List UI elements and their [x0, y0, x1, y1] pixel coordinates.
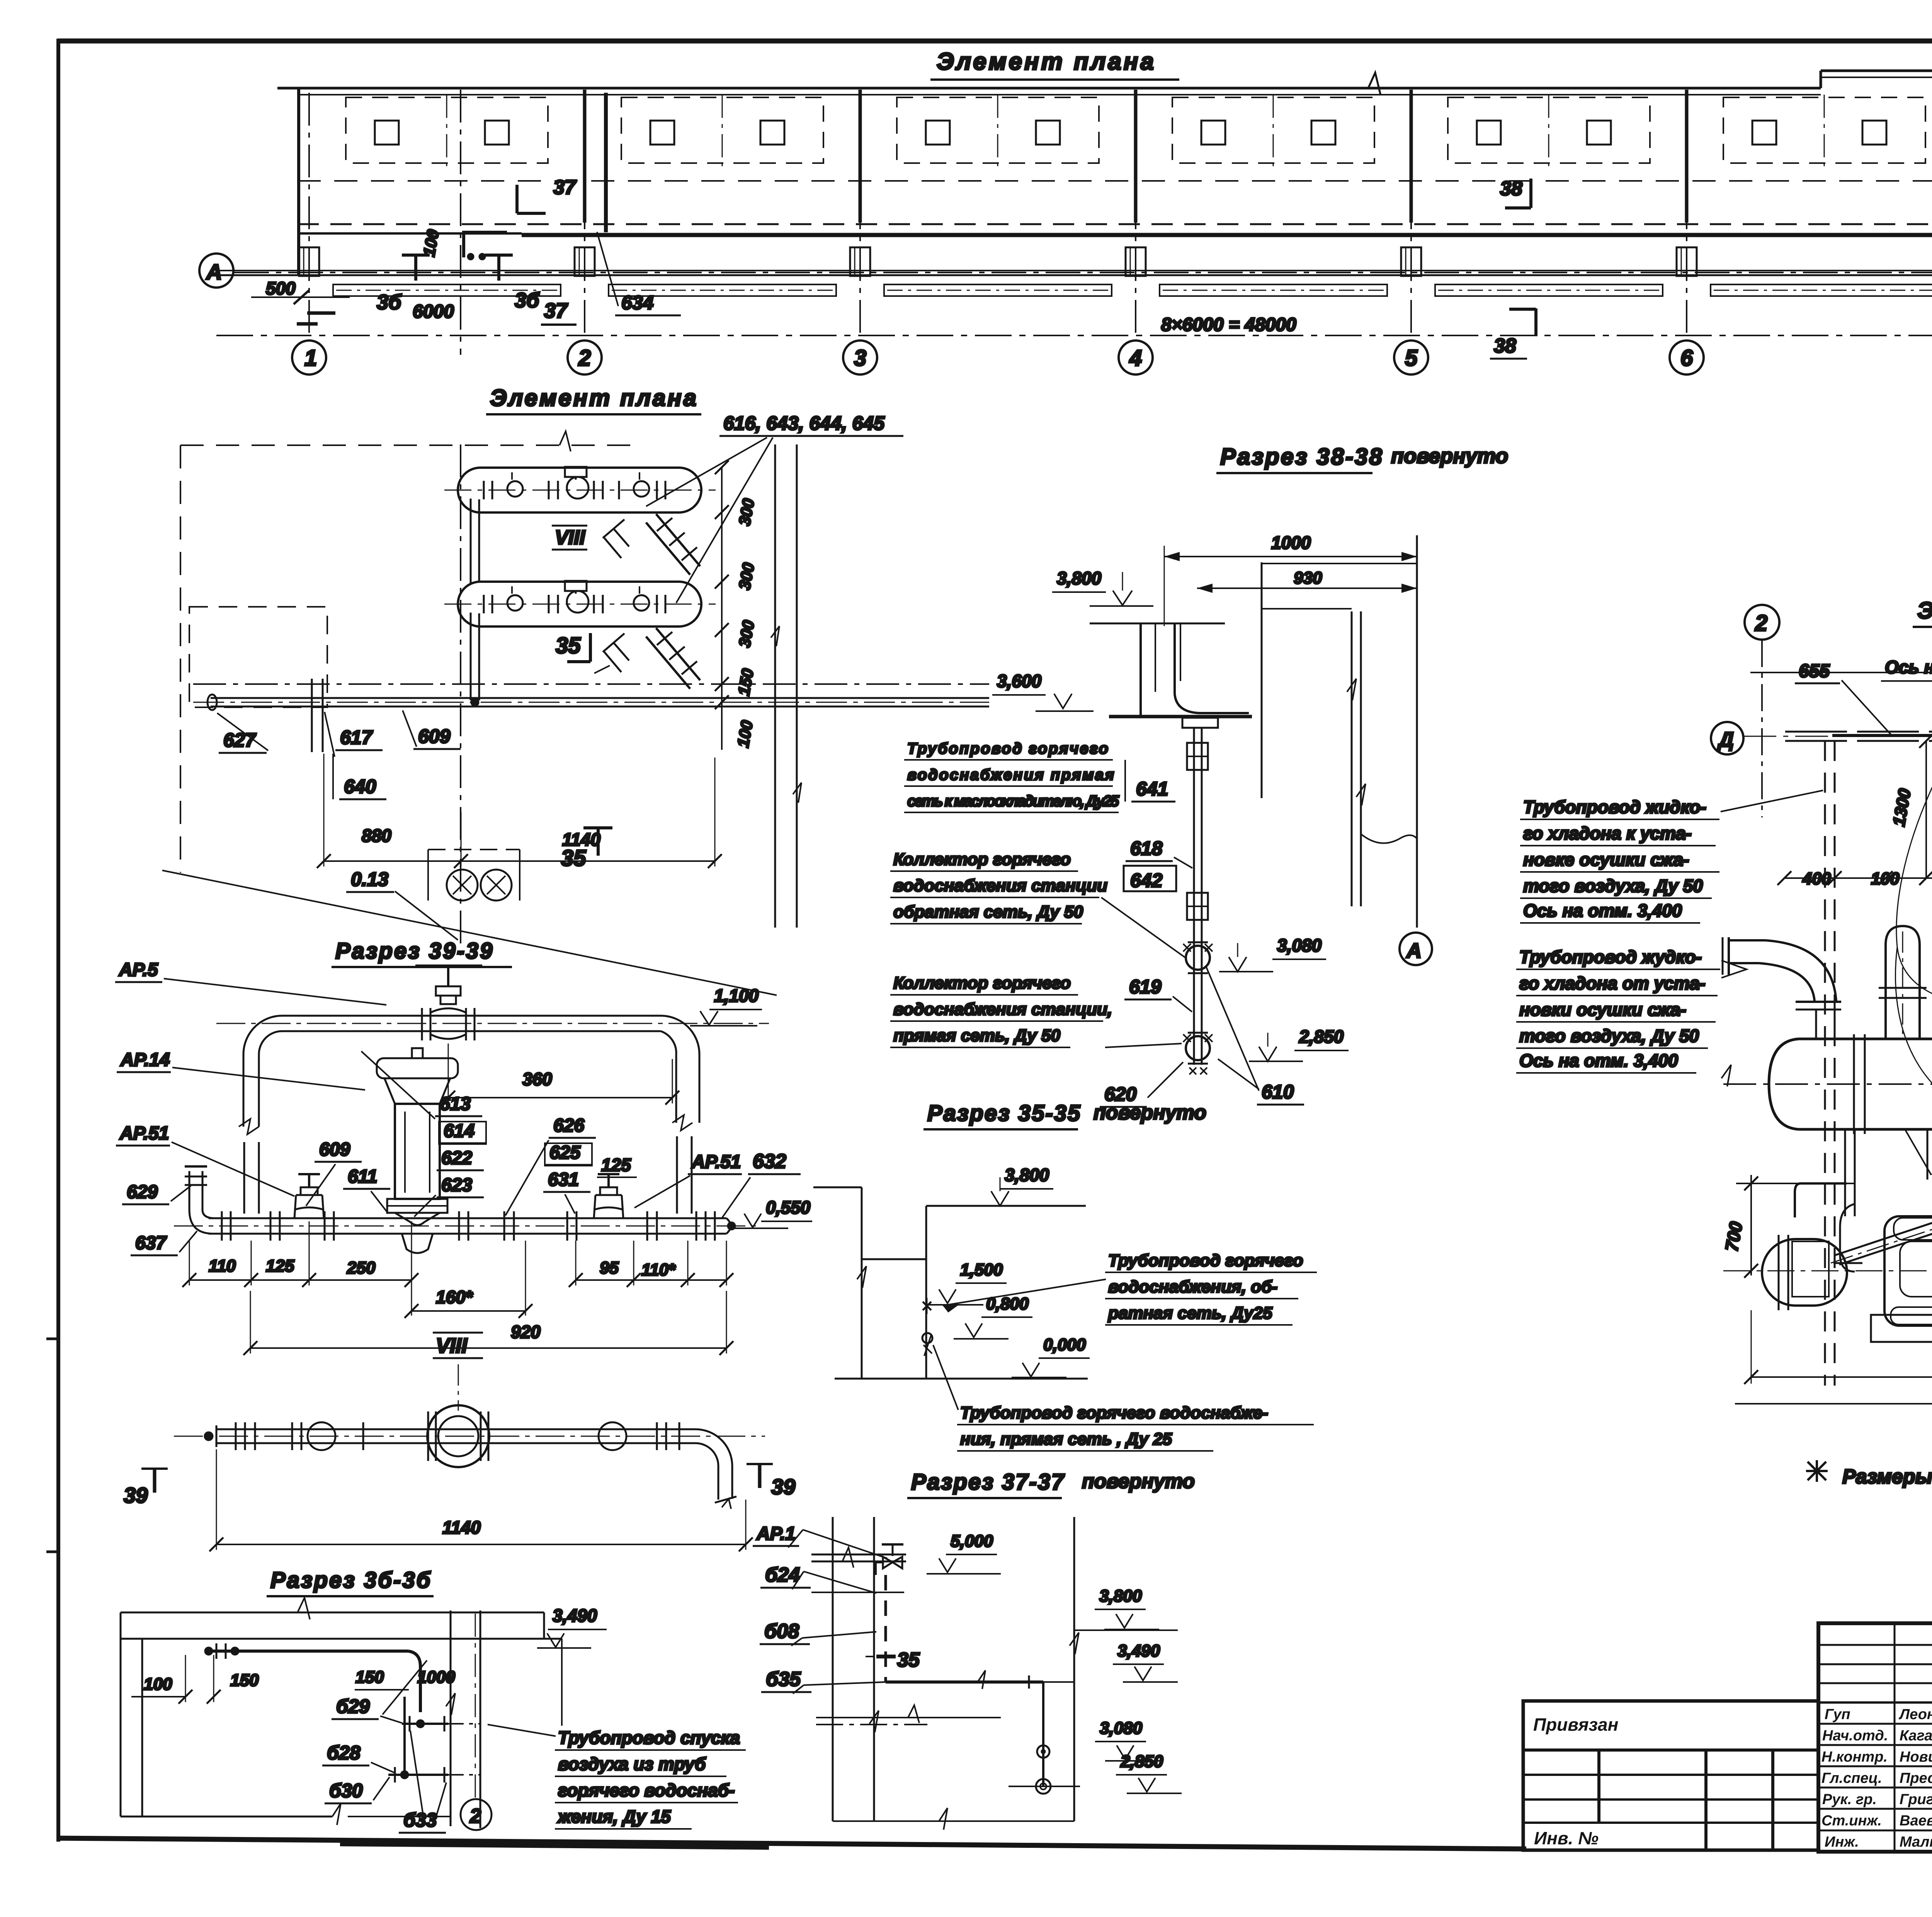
svg-text:б35: б35 [766, 1668, 801, 1691]
svg-text:3,600: 3,600 [997, 671, 1042, 691]
svg-text:150: 150 [355, 1668, 384, 1687]
svg-text:0,550: 0,550 [766, 1197, 811, 1217]
svg-text:Трубопровод жудко-: Трубопровод жудко- [1519, 947, 1702, 967]
svg-text:623: 623 [441, 1175, 472, 1195]
svg-text:жения, Ду 15: жения, Ду 15 [557, 1806, 671, 1827]
svg-text:воздуха из труб: воздуха из труб [558, 1754, 706, 1774]
svg-text:2,850: 2,850 [1120, 1752, 1163, 1771]
svg-text:617: 617 [340, 727, 373, 748]
svg-text:39: 39 [771, 1474, 795, 1499]
svg-text:Коллектор горячего: Коллектор горячего [893, 974, 1071, 993]
svg-text:Н.контр.: Н.контр. [1821, 1749, 1888, 1765]
svg-text:35: 35 [556, 633, 581, 658]
svg-text:прямая сеть, Ду 50: прямая сеть, Ду 50 [893, 1026, 1060, 1045]
svg-text:Разрез 35-35: Разрез 35-35 [927, 1101, 1081, 1126]
svg-text:38: 38 [1494, 335, 1516, 357]
svg-text:Разрез 37-37: Разрез 37-37 [911, 1469, 1065, 1495]
svg-text:95: 95 [600, 1258, 619, 1277]
svg-text:VIII: VIII [436, 1334, 468, 1357]
svg-text:8×6000 = 48000: 8×6000 = 48000 [1161, 315, 1296, 335]
svg-text:3,800: 3,800 [1005, 1165, 1049, 1185]
svg-text:Леонов: Леонов [1898, 1706, 1932, 1723]
svg-text:3,800: 3,800 [1057, 568, 1102, 588]
svg-text:0.13: 0.13 [351, 868, 389, 890]
svg-text:2,850: 2,850 [1299, 1027, 1344, 1047]
svg-text:100: 100 [144, 1675, 172, 1694]
svg-text:Григорьян: Григорьян [1900, 1791, 1932, 1808]
svg-text:Ось на отм. 3,400: Ось на отм. 3,400 [1519, 1050, 1678, 1071]
svg-text:горячего водоснаб-: горячего водоснаб- [558, 1780, 735, 1800]
svg-text:водоснабжения станции: водоснабжения станции [893, 876, 1107, 895]
svg-text:водоснабжения станции,: водоснабжения станции, [893, 1000, 1112, 1019]
svg-text:1,100: 1,100 [714, 986, 759, 1006]
svg-text:920: 920 [511, 1322, 541, 1342]
svg-text:б33: б33 [403, 1809, 437, 1831]
svg-text:Гл.спец.: Гл.спец. [1821, 1770, 1882, 1786]
svg-text:Новицкая: Новицкая [1900, 1749, 1932, 1765]
svg-text:Трубопровод спуска: Трубопровод спуска [558, 1728, 740, 1748]
svg-text:го хладона к уста-: го хладона к уста- [1523, 823, 1692, 843]
svg-text:обратная сеть, Ду 50: обратная сеть, Ду 50 [893, 902, 1083, 921]
svg-text:Элемент плана: Элемент плана [490, 385, 698, 411]
svg-text:627: 627 [223, 729, 257, 751]
svg-text:150: 150 [230, 1671, 259, 1690]
svg-text:Инж.: Инж. [1825, 1834, 1859, 1850]
svg-text:0,000: 0,000 [1043, 1335, 1086, 1354]
svg-text:634: 634 [621, 292, 653, 313]
svg-text:Ось на отм. 3,400: Ось на отм. 3,400 [1523, 901, 1682, 921]
svg-text:Трубопровод горячего водосна: Трубопровод горячего водоснабже- [960, 1403, 1268, 1422]
svg-text:АР.51: АР.51 [119, 1123, 169, 1144]
svg-text:2: 2 [1755, 611, 1767, 636]
svg-text:6: 6 [1680, 346, 1693, 371]
svg-text:ния, прямая сеть , Ду 25: ния, прямая сеть , Ду 25 [960, 1430, 1172, 1449]
svg-text:500: 500 [266, 278, 296, 298]
svg-text:3б: 3б [377, 291, 402, 314]
svg-text:Нач.отд.: Нач.отд. [1822, 1728, 1888, 1744]
svg-text:641: 641 [1136, 778, 1168, 800]
svg-text:609: 609 [418, 725, 451, 747]
svg-text:642: 642 [1130, 870, 1163, 891]
svg-text:Размеры для справок: Размеры для справок [1842, 1466, 1932, 1488]
svg-text:609: 609 [319, 1139, 350, 1160]
svg-text:Трубопровод горячего: Трубопровод горячего [1108, 1251, 1303, 1270]
svg-text:новки осушки сжа-: новки осушки сжа- [1519, 999, 1686, 1020]
svg-text:37: 37 [544, 299, 568, 322]
svg-text:6000: 6000 [413, 301, 454, 322]
svg-text:А: А [1406, 939, 1422, 962]
svg-text:5: 5 [1405, 346, 1418, 371]
svg-text:38: 38 [1500, 177, 1522, 200]
svg-text:Ваеводина: Ваеводина [1900, 1813, 1932, 1829]
svg-text:б24: б24 [765, 1564, 800, 1586]
svg-text:618: 618 [1130, 838, 1163, 859]
svg-text:1,500: 1,500 [960, 1260, 1003, 1279]
svg-text:сеть к маслоохладителю, Ду25: сеть к маслоохладителю, Ду25 [907, 793, 1119, 810]
svg-text:б29: б29 [336, 1696, 370, 1717]
svg-text:Малюга: Малюга [1900, 1834, 1932, 1850]
svg-text:Разрез 39-39: Разрез 39-39 [335, 938, 494, 964]
svg-text:1: 1 [304, 346, 317, 371]
svg-text:того воздуха, Ду 50: того воздуха, Ду 50 [1519, 1026, 1699, 1046]
svg-text:Привязан: Привязан [1533, 1714, 1618, 1735]
svg-text:2: 2 [578, 346, 591, 371]
svg-text:ратная сеть, Ду25: ратная сеть, Ду25 [1108, 1304, 1272, 1323]
svg-text:360: 360 [522, 1069, 552, 1089]
svg-text:АР.51: АР.51 [691, 1152, 741, 1172]
svg-text:613: 613 [440, 1094, 471, 1114]
svg-text:1140: 1140 [442, 1517, 481, 1537]
svg-text:37: 37 [553, 176, 577, 199]
svg-text:3б: 3б [515, 289, 540, 312]
svg-text:б28: б28 [327, 1742, 361, 1764]
svg-text:Преснов: Преснов [1900, 1770, 1932, 1786]
svg-text:35: 35 [897, 1649, 920, 1671]
svg-text:39: 39 [124, 1483, 148, 1507]
svg-text:625: 625 [549, 1142, 581, 1163]
svg-text:631: 631 [548, 1170, 579, 1190]
svg-text:Гуп: Гуп [1825, 1706, 1850, 1723]
svg-text:110: 110 [209, 1256, 236, 1275]
svg-text:3,800: 3,800 [1099, 1587, 1142, 1605]
svg-text:А: А [206, 260, 222, 284]
svg-text:110*: 110* [641, 1260, 676, 1279]
svg-text:Коллектор горячего: Коллектор горячего [893, 850, 1071, 869]
svg-text:Каган: Каган [1900, 1728, 1932, 1744]
svg-text:Инв. №: Инв. № [1534, 1828, 1599, 1848]
svg-text:3,490: 3,490 [1117, 1641, 1160, 1660]
svg-text:35: 35 [561, 846, 586, 871]
svg-text:640: 640 [344, 776, 376, 797]
svg-text:водоснабжения, об-: водоснабжения, об- [1108, 1277, 1277, 1296]
svg-text:VIII: VIII [555, 526, 586, 549]
svg-text:616, 643, 644, 645: 616, 643, 644, 645 [723, 412, 885, 434]
svg-text:Рук. гр.: Рук. гр. [1822, 1791, 1877, 1808]
svg-text:125: 125 [266, 1256, 294, 1275]
svg-text:3,080: 3,080 [1100, 1719, 1143, 1738]
svg-text:АР.1: АР.1 [756, 1524, 796, 1544]
svg-text:б30: б30 [329, 1780, 363, 1801]
svg-text:655: 655 [1799, 661, 1830, 681]
svg-text:622: 622 [441, 1148, 472, 1168]
svg-text:632: 632 [753, 1150, 786, 1173]
svg-text:повернуто: повернуто [1391, 444, 1508, 468]
svg-text:АР.14: АР.14 [120, 1050, 170, 1070]
svg-text:2: 2 [469, 1805, 481, 1827]
svg-text:160*: 160* [436, 1287, 473, 1307]
svg-text:Разрез 38-38: Разрез 38-38 [1220, 444, 1384, 470]
svg-text:1000: 1000 [417, 1668, 455, 1687]
svg-text:614: 614 [444, 1121, 474, 1141]
svg-text:629: 629 [127, 1182, 158, 1202]
svg-text:Д: Д [1717, 728, 1734, 751]
svg-text:го хладона от уста-: го хладона от уста- [1519, 973, 1706, 993]
svg-text:930: 930 [1294, 569, 1322, 587]
svg-text:того воздуха, Ду 50: того воздуха, Ду 50 [1523, 876, 1703, 896]
svg-text:626: 626 [553, 1115, 584, 1136]
svg-text:Ст.инж.: Ст.инж. [1821, 1813, 1882, 1829]
svg-text:Элемент плана: Элемент плана [937, 48, 1156, 75]
svg-text:повернуто: повернуто [1094, 1102, 1206, 1124]
svg-text:Трубопровод жидко-: Трубопровод жидко- [1523, 797, 1706, 817]
svg-text:Элемент плана: Элемент плана [1917, 598, 1932, 623]
svg-text:Разрез 3б-3б: Разрез 3б-3б [270, 1568, 432, 1593]
svg-text:619: 619 [1129, 976, 1162, 998]
svg-text:3,490: 3,490 [553, 1605, 597, 1626]
svg-text:повернуто: повернуто [1082, 1470, 1195, 1493]
svg-text:3,080: 3,080 [1277, 935, 1322, 955]
svg-text:880: 880 [362, 826, 391, 846]
svg-text:Ось на отм. 3,400: Ось на отм. 3,400 [1885, 657, 1932, 677]
svg-text:4: 4 [1129, 346, 1142, 371]
svg-text:5,000: 5,000 [951, 1532, 993, 1551]
svg-text:3: 3 [854, 346, 866, 371]
svg-text:610: 610 [1262, 1081, 1294, 1103]
svg-text:АР.5: АР.5 [119, 960, 158, 980]
svg-text:250: 250 [347, 1258, 376, 1277]
svg-text:125: 125 [601, 1155, 631, 1175]
svg-text:1000: 1000 [1271, 533, 1311, 553]
svg-text:новке осушки сжа-: новке осушки сжа- [1523, 850, 1689, 870]
svg-text:б08: б08 [764, 1620, 799, 1643]
svg-text:637: 637 [135, 1233, 167, 1253]
svg-text:611: 611 [348, 1166, 378, 1187]
